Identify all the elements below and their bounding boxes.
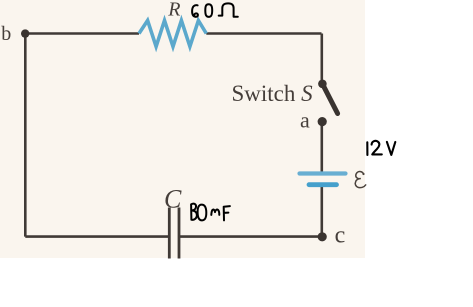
switch pivot dot [318,80,327,89]
annotation 80 microfarad [191,204,230,221]
wire right vertical to switch [320,34,323,82]
wire bottom-left segment [25,235,169,238]
wire node a to battery [320,121,323,172]
svg-text:R: R [167,0,180,20]
wire bottom-right segment [179,235,322,238]
node a dot [318,117,327,126]
resistor R [139,21,206,47]
label EMF script E [355,172,365,188]
svg-text:a: a [300,108,310,133]
svg-text:Switch S: Switch S [232,81,314,106]
svg-text:c: c [335,223,346,249]
wire top-right segment [206,32,321,35]
wire top-left segment [25,32,139,35]
battery EMF bottom plate [309,182,337,187]
battery EMF top plate [300,171,346,175]
node c dot [318,232,327,241]
wire battery to node c [320,186,323,237]
annotation 60 ohm [192,3,238,17]
svg-text:b: b [1,23,11,45]
scan background [0,0,365,258]
wire left vertical [24,34,27,237]
node b dot [21,29,29,37]
switch S blade [323,84,338,114]
svg-text:C: C [164,184,182,213]
capacitor C [168,208,171,259]
annotation 12V [367,141,395,155]
